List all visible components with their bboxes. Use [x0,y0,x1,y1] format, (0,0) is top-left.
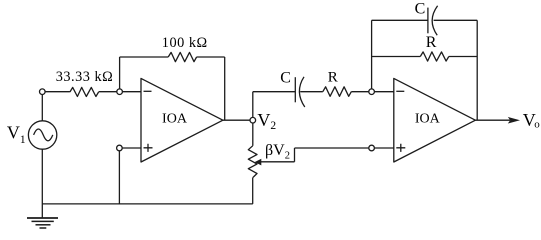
wire node to op-amp2 plus [375,147,394,149]
wire R branch right [449,56,477,58]
wire step down [294,148,296,162]
capacitor C (feedback) curved plate [432,6,437,36]
wire plus node left [295,147,369,149]
wiper arrowhead [255,159,262,166]
U2 minus sign [396,90,404,92]
source V1 (AC sine source) [28,121,56,149]
svg-text:100 kΩ: 100 kΩ [162,35,208,51]
output arrowhead [508,117,520,124]
wire node to op-amp1 plus [122,147,141,149]
terminal node (source output) [40,89,46,95]
wire pot bottom to ground bus [252,178,254,204]
U2 plus sign [396,144,405,152]
wire C branch left [372,19,428,21]
wire feedback down to output [224,57,226,120]
svg-text:R: R [328,69,338,85]
wire op-amp2 output [475,119,510,121]
svg-text:IOA: IOA [415,112,441,127]
op-amp U2 triangle [394,78,476,162]
wire feedback top left [120,56,169,58]
node V2 [250,117,256,123]
svg-text:V2: V2 [257,110,276,132]
wire V2 down to potentiometer [252,123,254,146]
node op-amp1 non-inverting input [117,145,123,151]
capacitor C (series) curved plate [299,77,304,107]
wire feedback2 up [371,20,373,88]
wire feedback top right [197,56,225,58]
ground [27,217,58,219]
U1 plus sign [144,144,153,152]
wire V2 to capacitor C [253,91,295,93]
wire C to R [300,91,323,93]
svg-text:IOA: IOA [162,112,188,127]
wire R to node [351,91,368,93]
resistor 100 kOhm [168,52,196,61]
svg-text:Vo: Vo [523,110,540,131]
op-amp U1 triangle [141,78,223,162]
wire plus node down to ground bus [118,151,120,204]
wire input to R1 [45,91,70,93]
node op-amp1 inverting input [117,89,123,95]
svg-text:βV2: βV2 [265,142,290,161]
resistor R (series) [323,87,352,97]
wire op-amp1 output [223,119,250,121]
svg-text:C: C [415,1,426,18]
wire source bottom vertical to ground [41,149,43,218]
wire feedback2 down to output [476,20,478,120]
wire wiper horizontal [261,161,295,163]
svg-text:V1: V1 [7,123,26,146]
wire R branch left [372,56,421,58]
resistor R (feedback) [420,52,449,61]
wire R1 to inverting node [99,91,117,93]
svg-text:C: C [280,69,291,86]
svg-text:33.33 kΩ: 33.33 kΩ [56,69,114,85]
wire node to op-amp2 minus [375,91,394,93]
U1 minus sign [144,90,152,92]
node op-amp2 non-inverting input [369,145,375,151]
capacitor C (series) flat plate [294,77,296,102]
wire feedback up [119,57,121,89]
potentiometer (vertical resistor) [248,146,257,178]
node op-amp2 inverting input [369,89,375,95]
capacitor C (feedback) flat plate [427,8,429,34]
wire source top vertical [41,95,43,121]
wire C branch right [434,19,478,21]
wire V2 up [252,92,254,118]
svg-text:R: R [426,34,437,51]
wire node to op-amp1 minus [123,91,141,93]
wire ground bus [42,203,253,205]
resistor 33.33 kOhm [70,87,99,96]
